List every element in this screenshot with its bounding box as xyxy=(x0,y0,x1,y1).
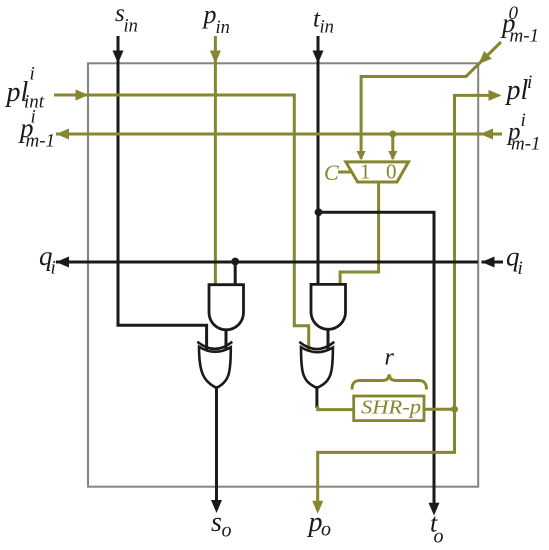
wire SHR-p output to junction xyxy=(424,408,455,411)
wire C stub xyxy=(338,171,352,174)
node pl^i label (right) xyxy=(505,72,533,106)
svg-text:s: s xyxy=(211,507,222,538)
wire p_m-1^i horizontal bus across cell xyxy=(56,133,502,136)
arrowhead p_m-1^i exiting left xyxy=(56,129,69,140)
arrowhead pl^i exiting right xyxy=(489,90,502,101)
junction on p_m-1^i feeding mux input 0 xyxy=(389,131,396,138)
wire mux input 0 xyxy=(391,134,394,159)
arrowhead mux input 1 xyxy=(357,151,366,160)
svg-text:in: in xyxy=(124,17,138,37)
mux M1 trapezoid xyxy=(346,162,409,182)
arrowhead q_i entering from right xyxy=(482,257,495,268)
node p0_m-1 label (top right) xyxy=(500,3,539,47)
wire q_i horizontal bus xyxy=(56,261,478,264)
wire A2 output stub xyxy=(327,329,330,353)
and-gate A2 (right) xyxy=(311,284,346,329)
wire t_in vertical to right AND gate xyxy=(317,36,320,284)
svg-text:0: 0 xyxy=(386,159,397,183)
svg-text:SHR-p: SHR-p xyxy=(361,397,421,419)
node p_in label xyxy=(202,0,230,38)
arrowhead t_o xyxy=(429,503,440,516)
svg-text:m-1: m-1 xyxy=(511,134,541,155)
arrowhead mux input 0 xyxy=(388,151,397,160)
xor-gate X1 (left) input curve xyxy=(197,342,232,349)
node p_o label xyxy=(307,507,332,541)
node pl_int^i label (left) xyxy=(5,64,45,113)
svg-text:o: o xyxy=(321,519,331,541)
wire s_in vertical xyxy=(118,36,207,353)
svg-text:o: o xyxy=(434,526,444,548)
svg-text:m-1: m-1 xyxy=(510,26,540,47)
node p_m-1^i label (left) xyxy=(18,107,55,152)
arrowhead pl_int^i at box left edge xyxy=(76,90,89,101)
svg-text:i: i xyxy=(51,258,56,279)
junction t_in branch to t_o xyxy=(315,208,323,216)
node s_o label xyxy=(211,507,232,542)
svg-text:i: i xyxy=(527,72,532,93)
svg-text:i: i xyxy=(30,64,35,85)
svg-text:p: p xyxy=(202,0,217,29)
arrowhead s_in into box xyxy=(113,51,124,64)
wire pl^i output from SHR-p junction up and out xyxy=(455,95,500,409)
xor-gate X2 body xyxy=(301,347,333,388)
node q_i label (left) xyxy=(39,241,56,279)
wire pl_int^i into box, down and to right XOR left input xyxy=(54,95,309,353)
svg-text:i: i xyxy=(518,258,523,279)
wire mux output to right AND gate right input xyxy=(340,182,379,284)
svg-text:C: C xyxy=(324,160,339,185)
outer cell boundary box xyxy=(88,63,478,486)
arrowhead s_o xyxy=(211,500,222,513)
wire t branch to t_o output xyxy=(318,212,434,512)
svg-text:pl: pl xyxy=(505,75,529,106)
wire p_in vertical xyxy=(214,36,217,285)
wire q_i stub from right xyxy=(482,261,504,264)
wire junction down and left to p_o xyxy=(318,409,455,511)
node s_in label xyxy=(115,0,138,37)
svg-text:1: 1 xyxy=(360,159,371,183)
arrowhead t_in into box xyxy=(313,51,324,64)
node p_m-1^i label (right) xyxy=(506,110,541,155)
svg-text:r: r xyxy=(385,345,395,371)
svg-text:i: i xyxy=(31,107,36,128)
svg-text:i: i xyxy=(521,110,526,131)
xor-gate X1 body xyxy=(199,347,231,388)
svg-text:in: in xyxy=(216,18,230,38)
node t_in label xyxy=(313,6,334,38)
and-gate A1 (left) xyxy=(209,285,244,330)
brace r over SHR-p xyxy=(352,375,427,390)
svg-text:m-1: m-1 xyxy=(26,131,56,152)
wire X1 output to s_o xyxy=(215,386,218,510)
xor-gate X2 (right) input curve xyxy=(299,342,334,349)
svg-text:in: in xyxy=(320,18,334,38)
node q_i label (right) xyxy=(506,242,523,280)
junction q_i to left AND gate xyxy=(231,258,239,266)
svg-text:o: o xyxy=(222,520,232,542)
arrowhead p_o xyxy=(312,501,323,514)
arrowhead p0_m-1 entering box corner xyxy=(479,51,492,64)
junction pl^i / p_o xyxy=(451,406,458,413)
node t_o label xyxy=(430,509,444,548)
wire p0_m-1 diagonal and run to mux input 1 xyxy=(361,42,501,159)
arrowhead q_i exiting left xyxy=(56,257,69,268)
arrowhead p_m-1^i entering from right xyxy=(480,129,493,140)
shifter SHR-p box xyxy=(354,396,424,421)
wire X2 output elbow to SHR-p (olive) xyxy=(318,406,354,410)
arrowhead p_in into box xyxy=(210,51,221,64)
wire q_i branch down to left AND gate xyxy=(234,262,237,285)
wire A1 output stub xyxy=(225,330,228,353)
wire X2 output down (black part) xyxy=(315,386,318,408)
